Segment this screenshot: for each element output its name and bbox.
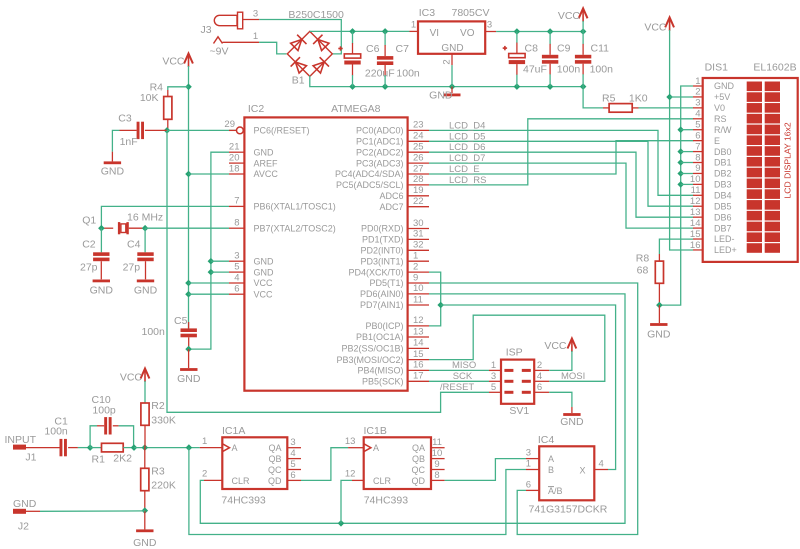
svg-text:GND: GND: [714, 81, 735, 91]
svg-text:24: 24: [413, 131, 424, 142]
bridge rectifier B1 diamond frame: [287, 31, 332, 76]
svg-text:VCC: VCC: [120, 372, 143, 384]
power symbol VCC above C11: [558, 8, 588, 31]
net SCK wire: [429, 380, 489, 382]
ISP pin 2 stub: [534, 360, 549, 371]
DIS1 pin 1 GND stub: [693, 76, 703, 87]
capacitor C4 27p: [123, 228, 154, 279]
svg-text:PC1(ADC1): PC1(ADC1): [356, 137, 404, 147]
svg-text:30: 30: [413, 218, 424, 229]
svg-text:5: 5: [695, 120, 700, 131]
IC2 right pin 9 PD5(T1) stub: [408, 272, 429, 283]
IC1B output pin 10 stub: [431, 448, 445, 459]
wire input branch down to IC4 B (segment A): [189, 448, 526, 535]
IC2 right pin 23 PC0(ADC0) stub: [408, 120, 429, 131]
power symbol VCC top-left: [162, 54, 193, 68]
svg-text:20: 20: [229, 152, 240, 163]
svg-text:7805CV: 7805CV: [452, 7, 490, 19]
svg-text:C5: C5: [174, 315, 188, 327]
IC2 left pin 20 AREF stub: [229, 152, 244, 163]
IC2 right pin 30 PD0(RXD) stub: [408, 218, 429, 229]
svg-text:21: 21: [229, 142, 240, 153]
IC2 right pin 25 PC2(ADC2) stub: [408, 142, 429, 153]
svg-text:DB7: DB7: [714, 223, 732, 233]
DIS1 pin 9 DB2 stub: [693, 163, 703, 174]
svg-text:~9V: ~9V: [210, 46, 229, 58]
ground symbol below R8: [647, 305, 671, 340]
junction R1 right / C10: [131, 444, 138, 451]
IC1A part label 74HC393: [221, 495, 266, 507]
power symbol VCC at R2: [120, 369, 150, 384]
IC2 right pin 32 PD2(INT0) stub: [408, 240, 429, 251]
svg-text:VCC: VCC: [162, 56, 185, 68]
IC1B label: [364, 425, 387, 437]
DIS1 pin 8 DB1 stub: [693, 152, 703, 163]
wire VCC vertical main: [188, 66, 190, 328]
svg-text:1: 1: [253, 31, 258, 42]
svg-text:ATMEGA8: ATMEGA8: [331, 103, 381, 115]
IC3 pin 1 VI stub: [410, 20, 419, 32]
svg-text:6: 6: [526, 479, 531, 490]
svg-text:VCC: VCC: [558, 10, 581, 22]
wire VO rail to VCC: [496, 31, 583, 33]
DIS1 LCD cell matrix column 1: [747, 82, 762, 253]
IC2 right pin 14 PB2(SS/OC1B) stub: [408, 338, 429, 349]
svg-text:LCD DISPLAY 16x2: LCD DISPLAY 16x2: [783, 122, 793, 198]
net LCD_E wire pin27 to DIS1 pin6: [429, 141, 694, 174]
net LCD_RS wire pin28 to DIS1 pin4: [429, 119, 694, 185]
ground symbol below C3: [101, 152, 125, 178]
net LCD_D4 wire pin23 to DIS1 pin11: [429, 130, 694, 195]
DIS1 pin 7 DB0 stub: [693, 141, 703, 152]
net PD5 to IC4 select A/B: [429, 283, 638, 535]
svg-text:C2: C2: [82, 239, 96, 251]
DIS1 pin 2 +5V stub: [693, 87, 703, 98]
svg-text:27p: 27p: [80, 262, 98, 274]
svg-text:PC5(ADC5/SCL): PC5(ADC5/SCL): [336, 180, 404, 190]
svg-text:3: 3: [487, 20, 492, 31]
svg-text:R1: R1: [92, 454, 106, 466]
svg-text:16: 16: [413, 360, 424, 371]
wire VCC to pin6: [189, 293, 230, 295]
svg-text:10: 10: [690, 174, 701, 185]
svg-text:PC4(ADC4/SDA): PC4(ADC4/SDA): [335, 169, 404, 179]
svg-text:PB5(SCK): PB5(SCK): [362, 377, 404, 387]
voltage regulator IC3 7805CV box: [418, 21, 485, 53]
junction R4 branch: [185, 84, 192, 91]
svg-text:QA: QA: [412, 443, 425, 453]
wire VCC to R4: [168, 87, 189, 90]
svg-text:10: 10: [432, 448, 443, 459]
junction C6 top: [349, 28, 356, 35]
junction R8 bottom: [656, 302, 663, 309]
svg-text:6: 6: [695, 130, 700, 141]
IC2 right pin 27 PC4(ADC4/SDA) stub: [408, 163, 429, 174]
svg-text:11: 11: [691, 185, 701, 196]
ISP pin 5 stub: [489, 382, 501, 393]
svg-text:QD: QD: [268, 476, 282, 486]
svg-text:PD1(TXD): PD1(TXD): [362, 235, 404, 245]
net LCD_D6 wire pin25 to DIS1 pin13: [429, 152, 694, 217]
DIS1 LCD cell matrix column 2: [765, 82, 780, 253]
svg-text:GND: GND: [254, 147, 275, 157]
svg-text:A/B: A/B: [548, 486, 563, 496]
svg-text:8: 8: [434, 470, 439, 481]
svg-text:5: 5: [234, 261, 239, 272]
net MOSI wire ISP pin4 to IC2 pin15: [429, 315, 605, 381]
crystal Q1 16 MHz: [82, 212, 163, 235]
wire IC1B QD to IC4 A: [445, 459, 526, 481]
J3 pin 1 contact ~9V: [210, 31, 260, 58]
svg-text:QC: QC: [412, 465, 426, 475]
svg-text:1: 1: [411, 20, 416, 31]
multiplexer IC4 box: [539, 446, 594, 500]
svg-text:ISP: ISP: [506, 347, 523, 359]
wire J2 to R3 bottom: [24, 510, 145, 512]
svg-text:LED-: LED-: [714, 234, 735, 244]
svg-text:AREF: AREF: [254, 158, 279, 168]
DIS1 pin names: [714, 81, 737, 255]
IC2 left pin 18 AVCC stub: [229, 163, 244, 174]
wire J3 pin3 to bridge right corner: [259, 20, 341, 54]
junction C9 top: [547, 28, 554, 35]
net label LCD_E: [449, 164, 480, 175]
svg-text:9: 9: [434, 459, 439, 470]
svg-text:2: 2: [413, 261, 418, 272]
svg-text:INPUT: INPUT: [5, 434, 37, 446]
svg-text:PB0(ICP): PB0(ICP): [365, 321, 403, 331]
resistor R4 10K: [140, 82, 172, 131]
svg-text:19: 19: [413, 185, 424, 196]
svg-text:7: 7: [234, 196, 239, 207]
svg-text:C8: C8: [525, 43, 539, 55]
IC2 labels: [248, 103, 381, 115]
svg-text:330K: 330K: [151, 415, 176, 427]
svg-text:+5V: +5V: [714, 92, 730, 102]
junction divider R2/R3: [142, 444, 149, 451]
junction C6 bottom: [349, 83, 356, 90]
IC4 pin 1 B stub: [526, 459, 539, 470]
junction VCC AVCC: [185, 171, 192, 178]
svg-text:DB6: DB6: [714, 212, 732, 222]
svg-text:/RESET: /RESET: [440, 382, 475, 393]
wire IC2 pin7 to crystal left: [101, 206, 229, 228]
svg-text:3: 3: [290, 437, 295, 448]
junction C1 / R1 / C10: [87, 444, 94, 451]
wire /RESET long run to ISP pin 5: [167, 130, 489, 412]
junction VCC pin6: [185, 291, 192, 298]
svg-text:VI: VI: [430, 28, 439, 39]
resistor R5 1K0: [602, 93, 648, 113]
svg-text:AVCC: AVCC: [254, 169, 279, 179]
svg-text:11: 11: [413, 294, 423, 305]
svg-text:PC3(ADC3): PC3(ADC3): [356, 158, 404, 168]
svg-text:27p: 27p: [123, 262, 141, 274]
svg-text:GND: GND: [560, 416, 584, 428]
svg-text:16 MHz: 16 MHz: [127, 212, 163, 224]
svg-text:LCD_D5: LCD_D5: [449, 131, 485, 142]
svg-text:GND: GND: [13, 498, 37, 510]
svg-text:220uF: 220uF: [365, 68, 395, 80]
svg-text:9: 9: [695, 163, 700, 174]
net label MISO: [452, 360, 476, 371]
capacitor C6 220uF: [338, 31, 394, 86]
wire /RESET node to IC2 pin 29: [167, 129, 236, 131]
svg-text:23: 23: [413, 120, 424, 131]
junction C5 bottom: [185, 346, 192, 353]
power symbol VCC right: [644, 17, 674, 33]
junction GND bus at DB1: [677, 159, 684, 166]
svg-text:22: 22: [413, 196, 424, 207]
svg-text:100n: 100n: [142, 326, 166, 338]
DIS1 pin 12 DB5 stub: [690, 196, 703, 207]
IC2 left pin 3 GND stub: [229, 251, 244, 262]
ISP pads row 1: [504, 369, 530, 372]
svg-text:QB: QB: [412, 454, 425, 464]
IC2 right pin 16 PB4(MISO) stub: [408, 360, 429, 371]
IC1B part label 74HC393: [364, 495, 409, 507]
IC2 right pin names: [335, 126, 404, 387]
IC1B output pin 11 stub: [431, 437, 445, 448]
svg-text:16: 16: [690, 240, 701, 251]
junction V3 at PD7 row: [437, 302, 444, 309]
svg-text:GND: GND: [647, 329, 671, 341]
svg-text:MISO: MISO: [452, 360, 476, 371]
junction GND bus at DB2: [677, 170, 684, 177]
svg-text:EL1602B: EL1602B: [753, 62, 796, 74]
DIS1 pin 5 R/W stub: [693, 120, 703, 131]
IC2 right pin 10 PD6(AIN0) stub: [408, 283, 429, 294]
wire GND bus to pin3: [211, 260, 229, 262]
svg-text:GND: GND: [177, 373, 201, 385]
net PD6 to counters CLR: [200, 294, 625, 523]
wire DIS1 GND bus (V2): [659, 86, 693, 305]
IC2 right pin 19 ADC6 stub: [408, 185, 429, 196]
svg-text:SCK: SCK: [453, 371, 473, 382]
junction GND bus at R/W: [677, 126, 684, 133]
svg-text:VCC: VCC: [254, 289, 274, 299]
svg-text:C4: C4: [127, 239, 141, 251]
IC2 left pin 4 VCC stub: [229, 272, 244, 283]
svg-text:4: 4: [695, 109, 700, 120]
IC2 right pin 2 PD4(XCK/T0) stub: [408, 261, 429, 272]
wire X net to IC4 pin4: [441, 305, 616, 470]
svg-text:LCD_D4: LCD_D4: [449, 120, 485, 131]
svg-text:PD5(T1): PD5(T1): [369, 278, 403, 288]
IC2 right pin 13 PB1(OC1A) stub: [408, 326, 429, 337]
svg-text:DB0: DB0: [714, 147, 732, 157]
svg-text:6: 6: [234, 284, 239, 295]
svg-text:26: 26: [413, 152, 424, 163]
svg-text:GND: GND: [254, 267, 275, 277]
DIS1 pin 11 DB4 stub: [691, 185, 703, 196]
svg-text:V0: V0: [714, 103, 725, 113]
svg-text:R/W: R/W: [714, 125, 732, 135]
svg-text:ADC6: ADC6: [379, 191, 403, 201]
svg-text:C11: C11: [591, 43, 610, 55]
ISP pin 3 stub: [489, 371, 501, 382]
IC2 left pin 5 GND stub: [229, 261, 244, 272]
svg-text:IC3: IC3: [419, 7, 436, 19]
svg-text:R2: R2: [151, 400, 165, 412]
IC2 left pin 6 VCC stub: [229, 284, 244, 295]
svg-text:LCD_E: LCD_E: [449, 164, 480, 175]
net MISO wire: [429, 369, 489, 371]
junction /RESET node: [164, 127, 171, 134]
IC4 inner pin names: [548, 454, 586, 496]
wire GND bus to DB0: [681, 151, 693, 153]
svg-text:100n: 100n: [557, 64, 581, 76]
DIS1 labels: [705, 62, 797, 74]
IC2 left pin names: [254, 126, 336, 300]
junction IC3 GND bottom: [449, 83, 456, 90]
svg-text:1nF: 1nF: [120, 136, 138, 148]
svg-text:PC6(/RESET): PC6(/RESET): [254, 126, 310, 136]
wire GND bus to DB2: [681, 173, 693, 175]
svg-text:12: 12: [690, 196, 701, 207]
svg-text:B1: B1: [292, 75, 305, 87]
svg-text:220K: 220K: [151, 480, 176, 492]
wire GND bus to R/W: [681, 129, 693, 131]
junction R3 bottom: [142, 507, 149, 514]
ground symbol at IC3: [429, 87, 460, 102]
svg-text:14: 14: [690, 218, 701, 229]
capacitor C10 100p: [90, 394, 134, 448]
net label LCD_D5: [449, 131, 485, 142]
ISP labels: [506, 347, 530, 418]
IC1A pin 2 CLR stub: [202, 469, 222, 481]
junction GND bus at DB3: [677, 181, 684, 188]
wire VCC vertical to LED+ (V1): [670, 30, 693, 250]
svg-text:B: B: [548, 465, 554, 475]
svg-text:3: 3: [253, 9, 258, 20]
svg-text:DB3: DB3: [714, 180, 732, 190]
junction GND bus at DB0: [677, 148, 684, 155]
svg-text:14: 14: [413, 338, 424, 349]
DIS1 pin 4 RS stub: [693, 109, 703, 120]
connector J1 INPUT pad: [5, 434, 37, 464]
IC2 pin 29 inversion bubble: [224, 119, 243, 134]
wire GND bus to DB1: [681, 162, 693, 164]
IC2 right pin 31 PD1(TXD) stub: [408, 229, 429, 240]
svg-text:PD6(AIN0): PD6(AIN0): [360, 289, 404, 299]
svg-text:9: 9: [413, 272, 418, 283]
bridge rectifier B1 label B250C1500: [288, 9, 344, 21]
svg-text:2: 2: [442, 59, 453, 64]
svg-text:QA: QA: [268, 443, 281, 453]
svg-text:1: 1: [526, 459, 531, 470]
svg-text:Q1: Q1: [82, 215, 96, 227]
svg-text:1K0: 1K0: [629, 93, 648, 105]
svg-text:1: 1: [491, 360, 496, 371]
svg-text:32: 32: [413, 240, 424, 251]
IC2 right pin 24 PC1(ADC1) stub: [408, 131, 429, 142]
svg-text:PD4(XCK/T0): PD4(XCK/T0): [348, 267, 403, 277]
wire VCC branch to pin 2: [670, 96, 693, 98]
svg-text:IC1A: IC1A: [222, 425, 245, 437]
net label LCD_D6: [449, 142, 485, 153]
IC2 right pin 26 PC3(ADC3) stub: [408, 152, 429, 163]
IC2 left pin 7 PB6(XTAL1/TOSC1) stub: [229, 196, 244, 207]
DIS1 pin 15 LED- stub: [690, 229, 703, 240]
svg-text:47uF: 47uF: [523, 64, 547, 76]
junction C7 bottom: [382, 83, 389, 90]
DIS1 pin 3 V0 stub: [693, 98, 703, 109]
svg-text:J1: J1: [25, 452, 36, 464]
svg-text:12: 12: [345, 469, 356, 480]
svg-text:QC: QC: [268, 465, 282, 475]
svg-text:2: 2: [537, 360, 542, 371]
svg-text:VCC: VCC: [644, 21, 667, 33]
net label SCK: [453, 371, 473, 382]
resistor R1 2K2: [90, 443, 134, 465]
power symbol VCC at ISP: [544, 339, 576, 353]
IC1A output pin 3 stub: [287, 437, 301, 448]
capacitor C2 27p: [80, 228, 110, 279]
svg-text:1: 1: [202, 436, 207, 447]
svg-text:100n: 100n: [396, 68, 420, 80]
microcontroller IC2 ATMEGA8 box: [244, 117, 407, 390]
svg-text:PD0(RXD): PD0(RXD): [361, 224, 404, 234]
svg-text:3: 3: [526, 448, 531, 459]
IC1A label: [222, 425, 245, 437]
svg-text:13: 13: [413, 326, 424, 337]
wire IC2 pin21 GND down bus: [189, 152, 229, 349]
net T0 mux output: IC2 pins 2,11,12 tie (V3): [429, 272, 441, 326]
svg-text:J3: J3: [201, 24, 212, 36]
wire DC- rail (ground) from bridge bottom: [310, 76, 583, 87]
svg-text:4: 4: [599, 459, 604, 470]
IC1B inner pin names: [373, 443, 426, 486]
svg-text:3: 3: [491, 371, 496, 382]
wire DIS1 LED- to R8: [659, 239, 693, 254]
ISP pads row 3: [504, 391, 530, 394]
wire ISP pin6 to ground: [549, 392, 572, 407]
svg-text:15: 15: [413, 349, 424, 360]
svg-text:PC0(ADC0): PC0(ADC0): [356, 126, 404, 136]
svg-text:GND: GND: [90, 285, 114, 297]
DIS1 pin 10 DB3 stub: [690, 174, 703, 185]
svg-text:PB1(OC1A): PB1(OC1A): [356, 332, 404, 342]
junction CLR net at IC1B: [338, 520, 345, 527]
svg-text:1: 1: [413, 251, 418, 262]
IC4 label: [538, 434, 555, 446]
junction C8 top: [514, 28, 521, 35]
IC3 pin 2 GND stub: [442, 54, 453, 87]
net LCD_D5 wire pin24 to DIS1 pin12: [429, 141, 694, 206]
svg-text:74HC393: 74HC393: [364, 495, 409, 507]
capacitor C8 47uF: [503, 32, 547, 87]
IC2 left pin 21 GND stub: [229, 142, 244, 153]
svg-text:8: 8: [695, 152, 700, 163]
IC1B pin 12 CLR stub: [345, 469, 364, 481]
svg-text:IC2: IC2: [248, 103, 265, 115]
svg-text:A: A: [548, 454, 554, 464]
svg-text:27: 27: [413, 163, 424, 174]
net label MOSI: [561, 371, 585, 382]
wire VCC to AVCC pin18: [189, 173, 230, 175]
IC1A output pin 4 stub: [287, 448, 301, 459]
resistor R3 220K: [141, 448, 176, 511]
wire J3 pin1 to bridge left corner: [259, 42, 286, 54]
bridge diode lower-left (anode bottom, cathode left): [291, 57, 308, 74]
svg-text:7: 7: [695, 141, 700, 152]
capacitor C5 100n: [142, 315, 197, 349]
wire C3 left to ground: [112, 130, 119, 151]
svg-text:GND: GND: [441, 43, 463, 54]
svg-text:QB: QB: [268, 454, 281, 464]
junction C7 top: [382, 28, 389, 35]
